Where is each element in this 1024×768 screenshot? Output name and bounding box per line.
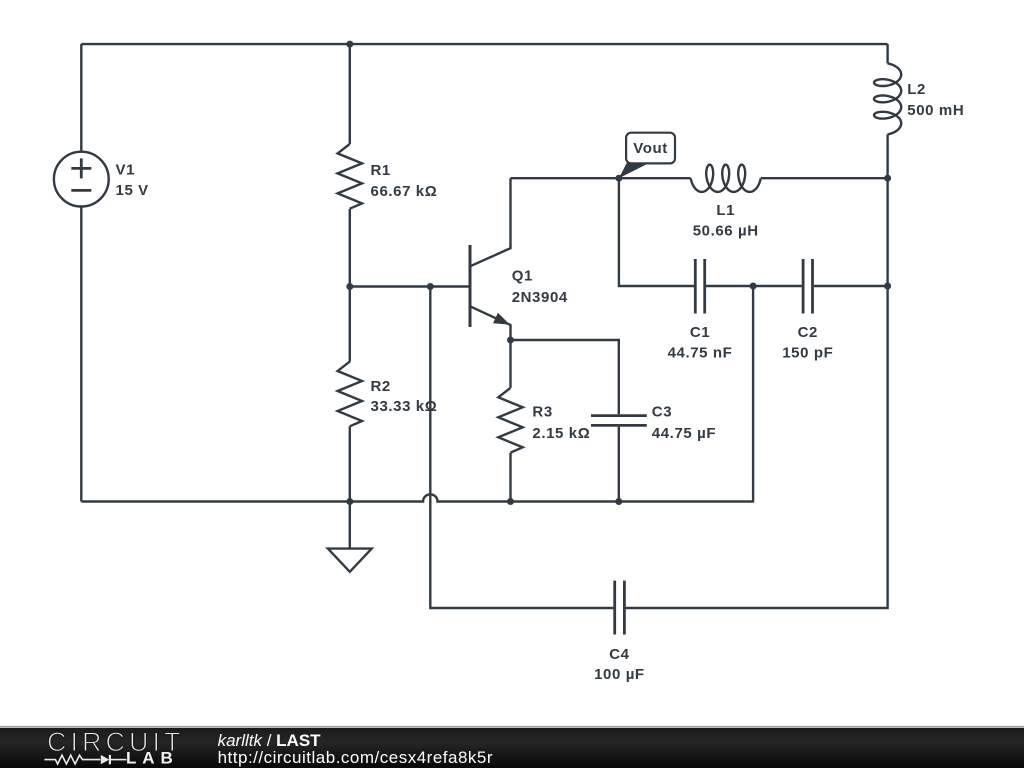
svg-text:LAB: LAB xyxy=(126,749,179,768)
svg-text:150 pF: 150 pF xyxy=(782,344,833,361)
svg-text:C3: C3 xyxy=(652,404,672,421)
svg-text:500 mH: 500 mH xyxy=(907,102,964,119)
svg-text:V1: V1 xyxy=(116,161,136,178)
svg-text:L2: L2 xyxy=(907,81,926,98)
svg-text:Vout: Vout xyxy=(633,140,668,157)
svg-text:100 µF: 100 µF xyxy=(594,666,645,683)
svg-text:33.33 kΩ: 33.33 kΩ xyxy=(371,398,438,415)
svg-text:http://circuitlab.com/cesx4ref: http://circuitlab.com/cesx4refa8k5r xyxy=(218,748,493,767)
svg-text:L1: L1 xyxy=(716,202,735,219)
svg-text:C1: C1 xyxy=(690,324,710,341)
svg-text:R1: R1 xyxy=(371,162,391,179)
svg-text:44.75 nF: 44.75 nF xyxy=(668,344,733,361)
svg-text:R2: R2 xyxy=(371,378,391,395)
svg-text:2N3904: 2N3904 xyxy=(512,289,568,306)
svg-text:C4: C4 xyxy=(609,646,629,663)
svg-text:44.75 µF: 44.75 µF xyxy=(652,425,716,442)
svg-text:50.66 µH: 50.66 µH xyxy=(693,223,759,240)
svg-text:2.15 kΩ: 2.15 kΩ xyxy=(532,425,590,442)
svg-text:66.67 kΩ: 66.67 kΩ xyxy=(371,183,438,200)
svg-text:Q1: Q1 xyxy=(512,268,533,285)
svg-text:15 V: 15 V xyxy=(116,182,149,199)
svg-text:C2: C2 xyxy=(798,324,818,341)
svg-text:R3: R3 xyxy=(532,404,552,421)
